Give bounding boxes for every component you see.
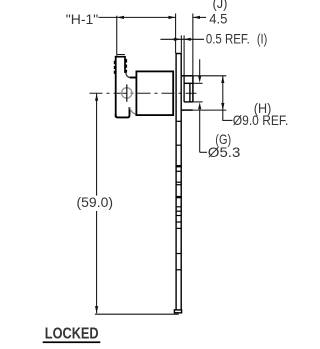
- centerline (lock axis, dash-dot): [90, 92, 197, 94]
- dimension 59.0 dim line: [96, 94, 98, 196]
- slide bar rung y269.2: [176, 269, 182, 271]
- slide bar rung y215.2: [176, 215, 182, 217]
- dimension 0.5 dim line: [160, 38, 204, 40]
- dimension 59.0 up arrowhead: [95, 94, 98, 101]
- LOCKED underline: [43, 341, 101, 343]
- slide bar rung y170: [176, 170, 182, 172]
- dimension 0.5 extension line (flange front face): [183, 35, 185, 75]
- crosshair circle (mount hole): [122, 88, 132, 98]
- dimension phi5.3 upper outside arrow: [199, 59, 201, 76]
- mounting plate / slide bar left edge: [175, 53, 177, 310]
- svg-text:LOCKED: LOCKED: [45, 325, 99, 342]
- dimension 59.0 down arrowhead: [95, 306, 98, 313]
- svg-text:"H-1": "H-1": [66, 12, 98, 27]
- slide bar rung y228.9: [176, 227, 182, 229]
- dimension 0.5 left arrowhead: [174, 38, 182, 41]
- slide bar rung y253: [176, 253, 182, 255]
- slide bar rung y222.3: [176, 221, 182, 223]
- head left edge: [115, 56, 117, 117]
- dimension phi9 bottom extension line: [193, 109, 226, 111]
- dimension H-1 extension line (left, head edge): [116, 16, 118, 56]
- slide bar rung y182.5: [176, 184, 182, 186]
- dimension 0.5 extension line (plate rear face): [180, 35, 182, 52]
- dimension H-1 left arrowhead: [117, 16, 124, 19]
- svg-text:(I): (I): [257, 32, 267, 47]
- slide bar bottom cap: [174, 310, 181, 313]
- flange (rear cylinder) top edge: [182, 75, 193, 77]
- fillet knob-to-body (concave): [126, 73, 131, 78]
- svg-text:0.5 REF.: 0.5 REF.: [206, 32, 250, 47]
- knob top edge: [115, 56, 125, 58]
- flange front face: [183, 76, 185, 102]
- dimension phi9 dim line: [222, 76, 224, 121]
- knob cap thin top line: [117, 54, 125, 56]
- crosshair vertical tick: [126, 84, 128, 101]
- dimension H-1 dim line: [99, 16, 176, 18]
- svg-text:4.5: 4.5: [209, 12, 228, 27]
- knurl teeth right: [125, 59, 127, 63]
- dimension 4.5 right leader with arrowhead: [193, 16, 206, 18]
- slide bar thick rung y163: [176, 165, 182, 167]
- dimension phi5.3 lower outside arrow: [198, 102, 201, 109]
- svg-text:Ø5.3: Ø5.3: [208, 145, 241, 160]
- slide bar rung y210.8: [176, 210, 182, 212]
- dimension 0.5 right arrowhead: [184, 38, 191, 41]
- slide bar thick rung y197: [176, 196, 182, 198]
- dimension phi5.3 bottom extension line: [193, 101, 203, 103]
- svg-text:(59.0): (59.0): [77, 195, 114, 210]
- svg-text:(J): (J): [213, 0, 228, 11]
- pin top edge: [184, 82, 193, 84]
- plate top edge: [175, 53, 182, 55]
- bottom reference line: [95, 313, 179, 315]
- svg-text:Ø9.0 REF.: Ø9.0 REF.: [233, 113, 288, 128]
- shoulder line into body: [130, 77, 137, 79]
- pin end face: [192, 76, 194, 102]
- dimension H-1 / 4.5 shared right arrowhead: [168, 16, 175, 19]
- pin bottom edge: [184, 101, 193, 103]
- dimension phi5.3 top extension line: [193, 82, 203, 84]
- flange bottom edge: [182, 109, 193, 111]
- head bottom edge: [116, 107, 130, 117]
- cam lower S-curve (grey): [130, 107, 136, 114]
- mounting plate / slide bar right edge: [180, 53, 182, 310]
- lock body rectangle: [136, 71, 173, 115]
- dimension phi9 up arrowhead: [221, 76, 224, 83]
- dimension phi9 elbow leader: [222, 119, 232, 121]
- pin mid face: [189, 83, 191, 102]
- slide bar rung y178.8: [176, 181, 182, 183]
- dimension phi5.3 elbow leader: [200, 151, 207, 153]
- dimension phi9 top extension line: [193, 75, 226, 77]
- slide bar rung y145: [176, 144, 182, 146]
- dimension 4.5 left extension line: [175, 14, 177, 54]
- slide bar rung y206.6: [176, 206, 182, 208]
- knob right edge: [124, 56, 126, 73]
- dimension phi9 down arrowhead: [221, 103, 224, 110]
- dimension 4.5 right extension line: [192, 14, 194, 76]
- knurl teeth left: [114, 61, 116, 64]
- slide bar rung y121: [176, 120, 182, 122]
